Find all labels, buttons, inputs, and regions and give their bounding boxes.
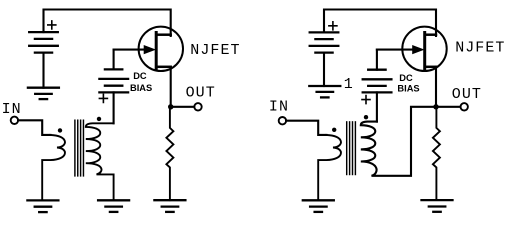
svg-text:NJFET: NJFET (455, 40, 505, 57)
svg-text:OUT: OUT (186, 85, 216, 102)
svg-text:DC: DC (399, 73, 413, 83)
svg-text:NJFET: NJFET (190, 42, 240, 59)
svg-text:OUT: OUT (452, 86, 482, 103)
svg-text:BIAS: BIAS (130, 83, 152, 93)
svg-text:DC: DC (133, 71, 147, 81)
svg-text:1: 1 (344, 76, 354, 93)
svg-text:IN: IN (269, 98, 289, 115)
svg-text:BIAS: BIAS (397, 83, 419, 93)
svg-text:IN: IN (2, 101, 22, 118)
